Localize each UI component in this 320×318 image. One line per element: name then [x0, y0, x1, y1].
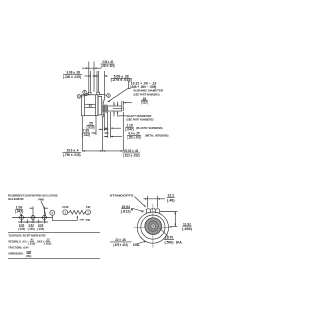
- svg-text:12.70: 12.70: [165, 236, 174, 240]
- terminal circle 2: [83, 91, 89, 95]
- svg-text:22 ± .38: 22 ± .38: [115, 238, 126, 242]
- body dia leader 22: [137, 241, 146, 244]
- svg-text:DIMENSIONS:: DIMENSIONS:: [9, 252, 24, 256]
- tolerance fraction bars: [30, 240, 34, 242]
- svg-text:DIA.: DIA.: [133, 243, 140, 247]
- lower extension + spacing arrows: [18, 220, 48, 224]
- dim 7.92 arrows: [92, 132, 109, 133]
- slot depth arrow: [122, 101, 132, 106]
- svg-text:(.469): (.469): [182, 227, 192, 231]
- dim .25 arrows: [99, 129, 109, 130]
- svg-text:CCW: CCW: [62, 205, 69, 209]
- bushing circle: [141, 215, 165, 239]
- tolerance block top rule: [8, 231, 100, 233]
- svg-text:(.043): (.043): [15, 210, 23, 214]
- height dim 11.91: [160, 212, 177, 227]
- knurl serrations: [145, 218, 162, 235]
- hole dia leader: [20, 214, 23, 217]
- svg-text:11.91: 11.91: [183, 222, 191, 226]
- standoff spacing dim: [144, 196, 166, 208]
- radius leader with x: [133, 209, 144, 213]
- terminal 2 circle: [50, 210, 55, 215]
- fraction bars front view: [167, 197, 175, 199]
- svg-text:15.54: 15.54: [121, 205, 130, 209]
- svg-text:.41: .41: [30, 238, 34, 242]
- bushing tolerance bracket leader: [103, 81, 131, 117]
- svg-text:2.54: 2.54: [38, 223, 44, 227]
- svg-text:(IN.): (IN.): [26, 254, 31, 258]
- shaft center circle: [151, 224, 156, 229]
- svg-text:CW: CW: [86, 205, 91, 209]
- bottom chain dimension line: [82, 150, 123, 152]
- svg-text:(.875 ± .015): (.875 ± .015): [113, 243, 128, 247]
- standoff right: [156, 209, 160, 214]
- lower extension lines: [82, 112, 123, 151]
- svg-text:.13: .13: [46, 238, 50, 242]
- hole 2: [30, 214, 37, 221]
- wiper wire: [52, 215, 77, 220]
- svg-text:(.500): (.500): [165, 240, 174, 244]
- svg-text:12.2: 12.2: [167, 194, 174, 198]
- dimension row 1: 5.08 (.200): [82, 67, 102, 69]
- top row texts: [63, 60, 132, 98]
- terminal tab 2: [88, 92, 91, 95]
- svg-text:HOLE DIAMETER: HOLE DIAMETER: [8, 197, 24, 201]
- svg-text:2.54: 2.54: [28, 223, 34, 227]
- hole 3: [41, 214, 48, 221]
- svg-text:DECIMALS: .XX ±: DECIMALS: .XX ±: [9, 240, 28, 244]
- shaft dia leader 12.70: [160, 228, 169, 237]
- extension lines above body: [89, 62, 105, 101]
- terminal circle 1: [77, 95, 87, 99]
- svg-text:(.100): (.100): [37, 227, 44, 231]
- svg-text:(.100): (.100): [28, 227, 35, 231]
- dimension row 2 arrows: [85, 75, 108, 77]
- svg-text:.76 R: .76 R: [150, 209, 156, 211]
- centerlines: [152, 204, 154, 248]
- svg-text:MM: MM: [27, 250, 32, 254]
- svg-text:3.08 ± .38: 3.08 ± .38: [67, 70, 81, 74]
- center dot: [153, 226, 154, 227]
- svg-text:TOLERANCES: EXCEPT WHERE NOTED: TOLERANCES: EXCEPT WHERE NOTED: [9, 234, 46, 238]
- standoffs leader: [135, 197, 146, 207]
- bushing diameter leader: [108, 88, 129, 102]
- cw arrow: [80, 219, 85, 221]
- PWB leader: [41, 201, 46, 217]
- svg-text:RECOMMENDED PC BOARD MOUNTING: RECOMMENDED PC BOARD MOUNTING HOLE LOCAT…: [8, 193, 58, 197]
- outer body circle: [137, 212, 168, 243]
- svg-text:2.54: 2.54: [19, 223, 25, 227]
- svg-text:(SEE PART NUMBERS): (SEE PART NUMBERS): [134, 92, 160, 96]
- svg-text:(.612): (.612): [121, 209, 131, 213]
- svg-text:DIA.: DIA.: [176, 240, 183, 244]
- knurl inner ring: [148, 221, 158, 231]
- terminal circle 3: [100, 94, 110, 98]
- potentiometer body: [82, 95, 99, 116]
- svg-text:(.032): (.032): [141, 101, 148, 105]
- hole 1: [18, 214, 25, 221]
- svg-text:STANDOFFS: STANDOFFS: [110, 194, 134, 198]
- mounting flange: [98, 96, 102, 115]
- svg-text:(.812 ± .032): (.812 ± .032): [123, 153, 140, 157]
- shaft diameter leader + arrows: [113, 102, 126, 117]
- fraction bars right column: [141, 99, 148, 101]
- svg-text:19.6 ± .4: 19.6 ± .4: [67, 148, 79, 152]
- svg-text:(.48): (.48): [167, 199, 175, 203]
- knurled shaft circle: [145, 218, 162, 235]
- svg-text:(METAL VERSIONS): (METAL VERSIONS): [145, 134, 169, 138]
- dim 1.19 plastic arrows: [104, 128, 121, 129]
- svg-text:CW: CW: [86, 218, 91, 222]
- board line: [12, 217, 53, 219]
- svg-text:(.005): (.005): [44, 242, 51, 246]
- tolerance block bottom rule: [8, 257, 100, 259]
- svg-text:FRACTIONS: ±1/64: FRACTIONS: ±1/64: [9, 246, 29, 250]
- svg-text:(.250 ± .010): (.250 ± .010): [127, 136, 141, 140]
- svg-text:(.312): (.312): [82, 133, 90, 137]
- svg-text:(.100): (.100): [18, 227, 25, 231]
- svg-text:(.240 ± .015): (.240 ± .015): [63, 75, 81, 79]
- dim 6.4 metal arrows: [104, 136, 122, 137]
- svg-text:20.62 ± .81: 20.62 ± .81: [124, 149, 139, 153]
- svg-text:(.200 ± .015): (.200 ± .015): [101, 64, 115, 68]
- standoff left: [146, 209, 150, 214]
- terminal 1 circle: [63, 210, 68, 215]
- svg-text:(PLASTIC VERSIONS): (PLASTIC VERSIONS): [136, 126, 163, 130]
- resistor zigzag: [68, 210, 86, 214]
- threaded bushing: [102, 105, 108, 113]
- terminal 3 circle: [86, 210, 91, 215]
- shaft: [107, 106, 123, 111]
- spacing fraction bars: [19, 226, 24, 228]
- svg-text:(SEE PART NUMBERS): (SEE PART NUMBERS): [126, 118, 153, 122]
- svg-text:(.016): (.016): [28, 242, 35, 246]
- terminal tab 3: [97, 92, 100, 95]
- svg-text:(.750 ± .015): (.750 ± .015): [63, 153, 81, 157]
- svg-text:PWB: PWB: [38, 197, 44, 201]
- right column annotation texts: [63, 81, 168, 157]
